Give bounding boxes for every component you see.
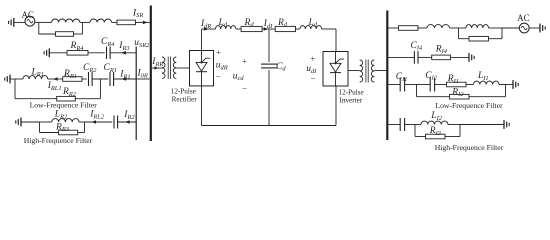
svg-text:−: −	[310, 73, 315, 83]
svg-text:12-Pulse: 12-Pulse	[171, 87, 196, 95]
transformer T_I core	[367, 60, 369, 83]
wire	[405, 84, 417, 86]
svg-text:−: −	[216, 72, 221, 82]
svg-text:+: +	[310, 54, 315, 64]
wire	[489, 27, 503, 29]
wire	[335, 29, 337, 52]
resistor R_R1	[63, 77, 82, 82]
wire	[268, 70, 270, 126]
wire	[529, 27, 540, 29]
arrow I_RR	[155, 66, 159, 69]
inductor Ls2 (inverter system)	[466, 25, 489, 28]
ground (AC source R)	[13, 18, 15, 27]
wire	[202, 28, 216, 30]
svg-text:AC: AC	[517, 13, 530, 23]
wire	[136, 21, 150, 23]
arrow I_RL2	[91, 120, 96, 124]
transformer T_R secondary	[173, 57, 176, 79]
wire	[14, 21, 25, 23]
inductor L_I2	[421, 121, 448, 124]
resistor R_R4	[67, 51, 88, 56]
thyristor (rectifier)	[201, 51, 203, 63]
ground (low-freq filter)	[9, 75, 11, 84]
capacitor C_R3 (high-freq)	[113, 116, 115, 129]
svg-text:Low-Frequence Filter: Low-Frequence Filter	[435, 101, 503, 110]
wire	[268, 29, 270, 62]
ground (R_I4 branch)	[468, 53, 470, 62]
wire	[459, 38, 470, 40]
resistor R_R3	[59, 130, 78, 135]
wire	[502, 27, 519, 29]
wire	[201, 29, 203, 51]
wire	[74, 33, 83, 35]
wire	[176, 67, 189, 69]
resistor (parallel damping, inverter)	[469, 36, 489, 41]
svg-text:Inverter: Inverter	[339, 96, 362, 104]
wire	[466, 84, 474, 86]
wire	[48, 78, 63, 80]
wire	[35, 21, 39, 23]
svg-text:12-Pulse: 12-Pulse	[339, 89, 364, 97]
wire	[82, 78, 87, 80]
arrow I_R2	[125, 120, 130, 124]
wire	[118, 121, 137, 123]
resistor R_d (inverter side)	[275, 26, 295, 31]
wire	[489, 38, 503, 40]
wire	[81, 22, 83, 34]
thyristor (inverter)	[335, 52, 337, 64]
wire	[450, 27, 459, 29]
svg-text:Rectifier: Rectifier	[172, 95, 198, 103]
wire	[75, 98, 100, 100]
ground (low-freq filter I)	[512, 80, 514, 89]
wire	[388, 84, 400, 86]
resistor R_d (rectifier side)	[241, 26, 262, 31]
wire	[296, 28, 300, 30]
transformer T_I core	[365, 60, 367, 83]
resistor R_R2	[57, 96, 76, 101]
resistor R_I4	[432, 55, 451, 60]
wire	[114, 78, 137, 80]
wire	[460, 124, 504, 126]
resistor R_I2	[450, 94, 470, 99]
inductor L_I1	[474, 81, 500, 84]
wire	[458, 28, 460, 39]
wire	[92, 78, 108, 80]
svg-text:+: +	[242, 56, 247, 66]
AC source (inverter side)	[519, 23, 529, 33]
wire	[112, 21, 118, 23]
wire	[435, 84, 447, 86]
wire	[469, 96, 506, 98]
resistor R_I1	[447, 82, 467, 87]
wire	[459, 125, 461, 137]
wire	[21, 121, 40, 123]
bus (rectifier AC bus)	[150, 6, 152, 142]
wire	[499, 84, 513, 86]
capacitor C_R2	[88, 72, 90, 86]
bus (inverter AC bus)	[386, 11, 388, 141]
wire	[418, 27, 427, 29]
wire	[82, 21, 90, 23]
wire	[39, 21, 52, 23]
wire	[417, 84, 431, 86]
wire	[269, 28, 275, 30]
wire	[418, 56, 432, 58]
wire	[38, 22, 40, 34]
wire	[451, 56, 470, 58]
capacitor C_I4	[413, 51, 415, 64]
wire	[335, 86, 337, 126]
transformer T_R primary	[162, 57, 165, 79]
wire	[202, 125, 337, 127]
wire	[88, 52, 105, 54]
wire	[322, 28, 336, 30]
wire	[505, 85, 507, 97]
svg-text:−: −	[242, 83, 247, 93]
wire	[10, 78, 23, 80]
resistor R_I3	[426, 134, 446, 139]
resistor (parallel damping)	[56, 32, 74, 37]
wire	[348, 70, 360, 72]
wire	[85, 121, 113, 123]
capacitor C_I1	[399, 78, 401, 92]
wire	[78, 132, 85, 134]
wire	[414, 125, 416, 137]
wire	[417, 96, 450, 98]
wire	[39, 33, 56, 35]
ground (high-freq filter I)	[503, 120, 505, 129]
wire	[40, 121, 52, 123]
wire	[79, 121, 85, 123]
resistor (system)	[117, 20, 136, 25]
wire	[415, 136, 426, 138]
inductor Ls2 (system)	[90, 19, 111, 22]
node u_SR2 (filter bus)	[135, 47, 137, 141]
capacitor C_I2	[429, 78, 431, 92]
ground (AC source I)	[539, 24, 541, 33]
transformer T_I primary	[371, 60, 374, 82]
arrow I_R3	[121, 51, 126, 55]
wire	[388, 27, 398, 29]
capacitor C_d	[261, 63, 277, 65]
wire	[448, 124, 460, 126]
wire	[99, 79, 101, 99]
arrow I_RL1	[53, 77, 58, 81]
12-pulse rectifier box	[190, 51, 214, 86]
wire	[501, 28, 503, 39]
wire	[388, 124, 400, 126]
capacitor C_R4	[106, 47, 108, 60]
wire	[201, 86, 203, 126]
capacitor C_R1	[109, 72, 111, 86]
wire - node u_SR2 to bus	[136, 78, 150, 80]
svg-text:Low-Frequence Filter: Low-Frequence Filter	[30, 101, 98, 110]
svg-text:High-Frequence Filter: High-Frequence Filter	[24, 136, 93, 145]
transformer T_I secondary	[360, 60, 363, 82]
wire	[405, 124, 415, 126]
inductor L_R2	[52, 119, 79, 122]
wire	[15, 98, 57, 100]
wire	[14, 79, 16, 99]
wire	[49, 52, 67, 54]
12-pulse inverter box	[323, 52, 348, 87]
ground (R_R4 branch)	[48, 48, 50, 57]
transformer T_R core	[167, 57, 169, 80]
wire	[40, 132, 59, 134]
wire	[80, 21, 83, 23]
svg-text:AC: AC	[21, 10, 34, 20]
wire	[262, 28, 269, 30]
wire	[110, 52, 136, 54]
ground (high-freq filter)	[20, 118, 22, 127]
wire	[84, 122, 86, 133]
wire	[459, 27, 467, 29]
wire	[236, 28, 241, 30]
capacitor C_I3 (high-freq)	[399, 118, 401, 131]
arrow I_R1	[122, 77, 127, 81]
wire	[388, 56, 414, 58]
wire	[416, 85, 418, 97]
inductor Ls1 (inverter system)	[427, 25, 450, 28]
AC source (rectifier side)	[25, 16, 35, 26]
resistor (system, inverter side)	[399, 26, 419, 31]
inductor Ls1 (system)	[52, 19, 80, 22]
svg-text:High-Frequence Filter: High-Frequence Filter	[435, 143, 504, 152]
arrow I_dI	[264, 27, 269, 31]
inductor L_d (rectifier side)	[216, 26, 236, 29]
wire	[415, 124, 421, 126]
inductor L_d (inverter side)	[300, 26, 322, 29]
wire	[445, 136, 460, 138]
wire	[374, 70, 386, 72]
wire	[39, 122, 41, 133]
arrow I_SR	[143, 21, 148, 25]
arrow I_dR	[204, 27, 209, 31]
inductor L_R1	[23, 76, 48, 79]
transformer T_R core	[170, 57, 172, 80]
svg-text:+: +	[216, 47, 221, 57]
wire	[152, 67, 162, 69]
